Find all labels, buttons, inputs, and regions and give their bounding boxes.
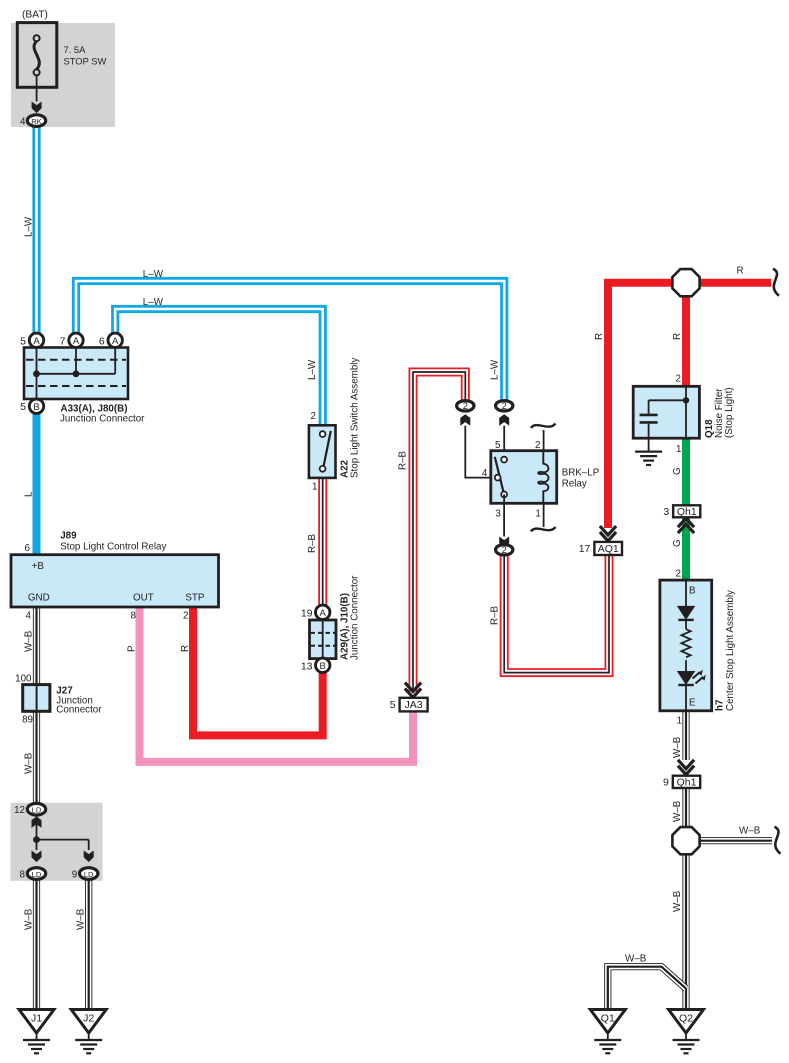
double-arrow marker at AQ1 (600, 526, 616, 541)
wire R-B: JA3 to relay connector pin 4 (R-B, red/black striped) (413, 372, 465, 693)
break squiggle above pin 2 (531, 424, 556, 429)
splice node ground splice (672, 827, 699, 854)
svg-text:+B: +B (32, 561, 45, 572)
svg-text:Q2: Q2 (679, 1013, 693, 1025)
arrow into connector 2 (pin3) (499, 537, 509, 549)
wire R-B: relay pin 3 connector to AQ1 (R-B, red/black striped) (504, 555, 609, 673)
ground point J2 (71, 1010, 106, 1034)
svg-text:3: 3 (663, 506, 669, 518)
wire junction 7A to relay connector pin 5 (L-W, light blue/white) (76, 281, 504, 401)
svg-text:STOP SW: STOP SW (64, 56, 107, 67)
svg-text:1: 1 (676, 444, 681, 455)
svg-text:Center Stop Light Assembly: Center Stop Light Assembly (725, 590, 736, 711)
inline connector AQ1 (579, 542, 622, 555)
svg-text:1: 1 (535, 509, 540, 520)
splice node stop light feed splice (672, 269, 699, 296)
wire R: splice to AQ1 (608, 283, 686, 528)
svg-text:LD: LD (84, 870, 94, 879)
svg-text:L: L (24, 491, 35, 497)
wire W-B: splice to ground Q2 (W-B, white/black striped) (682, 853, 689, 1010)
svg-text:W–B: W–B (76, 908, 87, 930)
ground point Q1 (590, 1010, 625, 1034)
svg-text:4: 4 (482, 468, 488, 479)
fuse STOP SW 7.5A (17, 23, 57, 102)
wire R-B: switch pin 1 to A29 pin 19A (R-B, red/black striped) (318, 477, 327, 607)
svg-text:2: 2 (502, 401, 507, 411)
ground symbol under J2 (75, 1033, 102, 1053)
wire relay pin 4 lead (465, 426, 495, 478)
svg-text:B: B (33, 402, 39, 413)
ground symbol under Q2 (673, 1033, 700, 1053)
svg-text:L–W: L–W (307, 359, 318, 380)
connector cavity LD lower-right (80, 868, 98, 880)
svg-text:5: 5 (495, 440, 501, 451)
svg-text:17: 17 (579, 543, 591, 555)
svg-text:Relay: Relay (562, 479, 587, 490)
wire R: right feed to splice (686, 279, 771, 287)
svg-text:E: E (689, 698, 696, 709)
svg-text:7: 7 (60, 335, 66, 347)
A29 pin 13B circle (301, 658, 330, 672)
svg-text:L–W: L–W (143, 269, 164, 280)
svg-text:JA3: JA3 (405, 699, 423, 711)
wire relay pin 2 stub (543, 430, 545, 451)
svg-text:9: 9 (663, 776, 669, 788)
svg-text:LD: LD (32, 806, 42, 815)
svg-text:6: 6 (25, 543, 31, 554)
connector cavity relay pin 5 feed (496, 401, 513, 412)
wire R: J89 STP to A29 pin 13B (193, 606, 323, 735)
double-arrow marker at JA3 (405, 683, 421, 698)
svg-text:12: 12 (14, 805, 25, 816)
svg-text:J2: J2 (83, 1013, 94, 1025)
wire J89 GND to J27 to LD12 (W-B, white/black striped) (33, 606, 40, 804)
junction A33 pin circles (20, 333, 44, 347)
wire L: junction 5B to J89 +B (33, 412, 41, 556)
junction connector A29(A)/J10(B) body (310, 620, 337, 659)
svg-text:RK: RK (31, 117, 42, 126)
wire P: J89 OUT to JA3 (140, 606, 414, 762)
connector cavity LD upper (27, 803, 45, 815)
svg-text:J1: J1 (31, 1013, 42, 1025)
shaded area: lower junction block (11, 803, 103, 881)
svg-text:W–B: W–B (24, 908, 35, 930)
svg-text:5: 5 (20, 335, 26, 347)
svg-text:3: 3 (495, 509, 501, 520)
wire R: splice to noise filter pin 2 (682, 295, 690, 388)
svg-text:8: 8 (20, 870, 26, 881)
svg-text:6: 6 (99, 335, 105, 347)
svg-text:Q1: Q1 (601, 1013, 615, 1025)
arrow into connector 2 (pin5) (499, 414, 509, 425)
svg-text:P: P (127, 645, 138, 652)
svg-text:Junction Connector: Junction Connector (350, 575, 361, 660)
inline connector Qh1 upper (663, 505, 700, 518)
svg-text:R–B: R–B (307, 533, 318, 553)
svg-text:5: 5 (20, 401, 26, 413)
svg-text:A: A (33, 336, 40, 347)
wire W-B: Qh1 to splice (W-B, white/black striped) (682, 788, 689, 829)
svg-text:L–W: L–W (24, 216, 35, 237)
center stop light assembly h7 body (660, 580, 712, 711)
svg-text:W–B: W–B (739, 826, 761, 837)
break squiggle below pin 1 (531, 527, 556, 532)
svg-text:B: B (689, 586, 696, 597)
stop light control relay J89 body (11, 555, 219, 607)
wire W-B: splice to right break (W-B, white/black striped) (699, 837, 772, 844)
connector cavity RK (27, 115, 45, 127)
svg-text:G: G (672, 539, 683, 547)
svg-text:LD: LD (32, 870, 42, 879)
stop light switch A22 body (309, 425, 336, 478)
svg-text:W–B: W–B (24, 752, 35, 774)
svg-text:4: 4 (26, 611, 32, 622)
wire W-B: LD9 to ground J2 (W-B, white/black striped) (85, 879, 92, 1010)
A29 pin 19A circle (301, 605, 330, 619)
arrow into connector RK (32, 102, 42, 114)
svg-text:W–B: W–B (625, 954, 647, 965)
svg-text:W–B: W–B (672, 800, 683, 822)
connector cavity relay pin 4 feed (457, 401, 474, 412)
svg-text:BRK–LP: BRK–LP (562, 468, 600, 479)
svg-text:2: 2 (502, 545, 507, 555)
svg-text:R–B: R–B (490, 605, 501, 625)
svg-text:OUT: OUT (133, 593, 154, 604)
wire W-B: center stop light pin 1 to Qh1 (W-B, white/black striped) (682, 710, 689, 760)
svg-text:R: R (737, 266, 744, 277)
svg-text:Qh1: Qh1 (677, 506, 697, 518)
svg-text:AQ1: AQ1 (598, 543, 619, 555)
BRK-LP relay body (491, 451, 557, 504)
ground point Q2 (669, 1010, 704, 1034)
svg-text:9: 9 (72, 870, 77, 881)
double-arrow marker at Qh1 upper (678, 518, 694, 533)
wire RK to junction A33 pin 5A (L-W, light blue/white) (32, 126, 40, 334)
svg-text:100: 100 (15, 674, 32, 685)
ground symbol under Q1 (594, 1033, 621, 1053)
svg-text:Connector: Connector (56, 705, 102, 716)
svg-text:4: 4 (20, 117, 26, 128)
svg-text:Stop Light Control Relay: Stop Light Control Relay (60, 542, 166, 553)
ground point J1 (19, 1010, 54, 1034)
inline connector JA3 (390, 698, 428, 712)
connector cavity relay pin 3 feed (496, 545, 513, 556)
svg-text:Qh1: Qh1 (677, 776, 697, 788)
svg-text:2: 2 (183, 611, 188, 622)
svg-text:2: 2 (463, 401, 468, 411)
arrow into connector LD12 (32, 817, 42, 828)
svg-text:A: A (112, 336, 119, 347)
wire W-B: branch to ground Q1 (W-B, white/black striped) (608, 967, 686, 1010)
wire junction 6A to stop light switch pin 2 (L-W, light blue/white) (115, 309, 323, 427)
break symbol red feed continues (773, 269, 779, 296)
arrow into connector 2 (pin4) (460, 414, 470, 425)
svg-text:(Stop Light): (Stop Light) (724, 387, 735, 438)
svg-text:2: 2 (676, 569, 681, 580)
ground symbol under J1 (23, 1033, 50, 1053)
junction connector A33(A)/J80(B) body (24, 348, 128, 400)
ground bars under Q18 capacitor (635, 452, 662, 465)
connector cavity LD lower-left (27, 868, 45, 880)
svg-text:8: 8 (131, 611, 137, 622)
svg-text:L–W: L–W (490, 359, 501, 380)
double-arrow marker at Qh1 lower (678, 760, 694, 775)
junction A33 pin 5B circle (20, 399, 44, 413)
svg-text:(BAT): (BAT) (22, 10, 48, 21)
wire G: Qh1 to center stop light pin 2 (682, 516, 690, 582)
svg-text:R: R (594, 333, 605, 340)
svg-text:J89: J89 (60, 531, 77, 542)
svg-text:GND: GND (28, 593, 50, 604)
inline connector Qh1 lower (663, 776, 700, 789)
junction connector J27 body (23, 685, 50, 712)
svg-text:2: 2 (535, 440, 540, 451)
svg-text:A: A (73, 336, 80, 347)
arrow into connector LD8 (32, 851, 42, 863)
svg-text:Junction Connector: Junction Connector (60, 414, 145, 425)
svg-text:A: A (320, 608, 327, 619)
svg-text:89: 89 (22, 715, 33, 726)
svg-text:Stop Light Switch Assembly: Stop Light Switch Assembly (350, 358, 361, 478)
svg-text:B: B (320, 661, 326, 672)
svg-text:R: R (672, 333, 683, 340)
svg-text:1: 1 (677, 716, 682, 727)
svg-text:5: 5 (390, 699, 396, 711)
svg-text:h7: h7 (715, 699, 726, 711)
svg-text:R–B: R–B (398, 450, 409, 470)
svg-text:W–B: W–B (24, 630, 35, 652)
arrow into connector LD9 (84, 851, 94, 863)
break symbol W-B continues (775, 827, 781, 854)
wire relay pin 1 stub (543, 503, 545, 527)
svg-text:R: R (180, 645, 191, 652)
svg-text:1: 1 (312, 482, 317, 493)
shaded area: battery/fuse block (11, 23, 115, 127)
svg-text:W–B: W–B (672, 890, 683, 912)
svg-text:W–B: W–B (672, 736, 683, 758)
svg-text:STP: STP (185, 593, 205, 604)
svg-text:13: 13 (301, 660, 313, 672)
svg-text:7. 5A: 7. 5A (64, 44, 87, 55)
svg-text:L–W: L–W (143, 297, 164, 308)
svg-text:2: 2 (311, 411, 316, 422)
wire relay pin 3 lead (503, 494, 505, 536)
svg-text:G: G (672, 467, 683, 475)
wire G: noise filter pin 1 to Qh1 (682, 437, 690, 507)
wire W-B: LD8 to ground J1 (W-B, white/black striped) (33, 879, 40, 1010)
svg-text:2: 2 (676, 374, 681, 385)
noise filter Q18 body (633, 386, 699, 451)
wire relay pin 5 lead (503, 426, 505, 460)
junction block internal wiring (37, 816, 89, 850)
svg-text:19: 19 (301, 607, 313, 619)
